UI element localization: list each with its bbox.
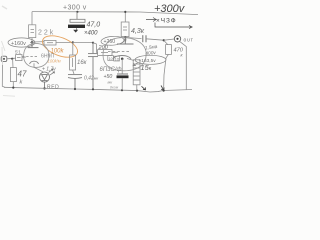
node D (junction C3) [92,42,94,44]
resistor R9 10 screen stopper box1 [108,56,114,61]
V1 grid (dashed) [22,56,38,58]
svg-text:47: 47 [18,70,27,79]
node C (junction R2 / R3) [72,41,74,43]
resistor R4 5.1 grid stopper [16,55,26,61]
svg-text:47,0: 47,0 [87,22,101,29]
wire plate node E to C5 [126,37,142,38]
node G bus junction 470k [162,89,164,91]
smudge left edge [2,41,6,65]
svg-text:6Н9П: 6Н9П [41,54,55,60]
svg-text:10: 10 [109,57,113,61]
wire J1 ground drop [2,62,5,88]
wire node A to R2 [33,41,44,43]
node bus junction C4 [121,89,123,91]
V2 grid (dashed) [108,51,131,53]
bus arrow mark 1 [142,86,146,90]
svg-text:+163,5v: +163,5v [139,58,157,64]
wire cathode to C4 [121,59,123,74]
node junction rail/C1 [76,11,78,13]
annotation arrow under scribble [155,23,192,29]
svg-text:5'1: 5'1 [15,50,21,55]
resistor R8 15k cathode (ladder) [133,60,140,91]
wire node C to node D [73,41,93,43]
svg-text:+300v: +300v [154,3,186,15]
wire J2 ground drop [180,42,187,90]
wire node F to J2 [164,39,174,40]
resistor R5 47k [10,68,16,88]
wire R2 to node C [56,41,73,43]
wire C5 to node F [146,39,164,40]
voltage label +160v oval [8,38,35,47]
wire rail to R1 top [31,12,33,25]
resistor R11 470k [164,41,172,91]
smudge under bus left [3,95,15,98]
svg-text:+300 v: +300 v [63,4,87,11]
node bus junction C2 [74,88,76,90]
node B+ rail +300V [32,12,198,25]
wire J1 to grid node [7,57,16,60]
node F output junction [163,39,165,41]
node E plate of V2 [124,36,126,38]
node D1 ground junction [43,87,45,89]
voltage label +163,5v oval [133,55,166,66]
svg-text:6П3С/ф: 6П3С/ф [100,67,122,73]
pentode V2 6P3S envelope [103,38,146,71]
node grid junction [11,58,13,60]
svg-text:8ком: 8ком [110,86,119,90]
capacitor C4 50uF cathode bypass [117,73,128,75]
voltage label +260 oval [101,36,126,46]
svg-text:RЕD: RЕD [47,85,59,91]
D1 light arrows [49,69,55,75]
ground bus wire [4,87,192,92]
svg-text:×ЧЗФ: ×ЧЗФ [156,18,177,25]
svg-text:+ 1,7v: + 1,7v [42,67,56,73]
resistor R7 200 (grid) [93,43,118,56]
ground arrow of C1 [73,30,78,33]
svg-text:+160v: +160v [11,41,26,47]
wire cathode to R8 [127,59,134,61]
resistor R6 4.3k [121,12,129,37]
V2 plate [117,38,134,44]
output jack J2 [174,36,180,42]
wire B+ rail horizontal [32,12,198,15]
resistor R3 16k [70,42,76,74]
annotation scribble x434 [146,18,156,22]
node junction rail/R6 [124,11,126,13]
svg-text:×400: ×400 [84,31,98,37]
resistor R1 22k [29,25,36,42]
orange highlight ellipse around R2 [40,31,81,61]
node bus junction C3 [92,88,94,90]
svg-text:ουт: ουт [184,38,194,44]
capacitor C1 470uF x400V [70,12,85,30]
node cathode junction V2 [121,58,124,61]
node bus junction R5 [12,87,14,89]
V1 plate [28,43,39,48]
node bus junction R8 15k [136,90,138,92]
node A plate of V1 (+160v) [31,41,33,43]
svg-text:400v: 400v [145,50,156,57]
LED D1 RED cathode bias [40,72,50,88]
resistor R2 100k (horizontal, circled in orange) [44,40,56,45]
wire V1 cathode to D1 [34,63,43,72]
capacitor C5 1,5uF 400v coupling [143,35,146,42]
smudge top left [2,6,7,9]
svg-text:4,3к: 4,3к [131,28,145,35]
svg-text:16к: 16к [77,60,88,66]
capacitor C2 0.42uF [68,75,82,89]
resistor R10 10 screen stopper box2 [114,56,120,61]
triode V1 6N9P envelope [24,43,49,67]
wire grid node down to R5 [12,59,14,68]
V2 cathode [113,56,131,59]
svg-text:1Ω: 1Ω [115,58,120,62]
capacitor C3 (plate node to ground) [88,43,98,89]
bus arrow mark 2 (at node G) [161,86,164,91]
V1 cathode [30,61,39,64]
input jack J1 [1,56,7,61]
